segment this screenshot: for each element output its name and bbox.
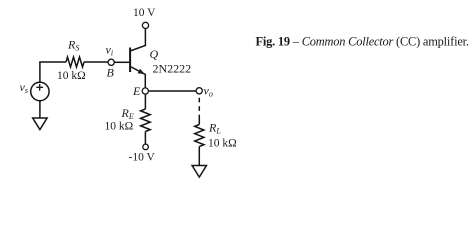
-10V supply terminal bbox=[143, 144, 149, 150]
wire vs to RS bbox=[39, 61, 66, 63]
svg-text:RE: RE bbox=[121, 106, 134, 121]
ground (right) bbox=[192, 166, 206, 178]
svg-text:10 kΩ: 10 kΩ bbox=[57, 70, 86, 82]
node vo terminal bbox=[196, 88, 202, 94]
svg-text:10 kΩ: 10 kΩ bbox=[105, 121, 134, 133]
transistor Q1 base bar bbox=[129, 48, 131, 73]
svg-text:vi: vi bbox=[106, 43, 114, 58]
transistor Q1 emitter with arrow bbox=[130, 66, 145, 88]
wire E to node vo bbox=[148, 90, 196, 92]
resistor RE bbox=[141, 109, 151, 132]
wire into RL bbox=[198, 115, 200, 125]
node E terminal bbox=[142, 88, 148, 94]
svg-text:vs: vs bbox=[20, 80, 28, 95]
svg-text:RL: RL bbox=[208, 121, 221, 136]
svg-text:10 V: 10 V bbox=[133, 7, 156, 19]
ground (left) bbox=[33, 118, 47, 130]
wire RL to ground bbox=[198, 147, 200, 166]
svg-text:2N2222: 2N2222 bbox=[153, 62, 192, 76]
dashed wire vo to RL bbox=[198, 98, 200, 111]
wire B to transistor base bbox=[114, 61, 130, 63]
svg-text:Fig. 19 – Common Collector (CC: Fig. 19 – Common Collector (CC) amplifie… bbox=[256, 35, 469, 49]
node vi / B terminal bbox=[108, 59, 114, 65]
wire vs top to horizontal bbox=[39, 62, 41, 82]
svg-text:vo: vo bbox=[204, 84, 213, 99]
svg-text:10 kΩ: 10 kΩ bbox=[208, 138, 237, 150]
voltage source VS bbox=[31, 82, 49, 100]
wire E to RE bbox=[144, 94, 146, 109]
svg-text:-10 V: -10 V bbox=[129, 152, 156, 164]
transistor Q1 collector bbox=[130, 29, 145, 52]
wire RS to node B bbox=[84, 61, 108, 63]
resistor RS bbox=[66, 57, 84, 67]
svg-text:B: B bbox=[107, 66, 115, 80]
svg-text:RS: RS bbox=[67, 38, 79, 53]
+10V supply terminal bbox=[142, 22, 148, 28]
svg-text:Q: Q bbox=[150, 47, 159, 61]
resistor RL bbox=[195, 125, 204, 147]
wire vs bottom to ground bbox=[39, 101, 41, 118]
svg-text:E: E bbox=[132, 84, 141, 98]
wire RE to -10V terminal bbox=[144, 132, 146, 145]
